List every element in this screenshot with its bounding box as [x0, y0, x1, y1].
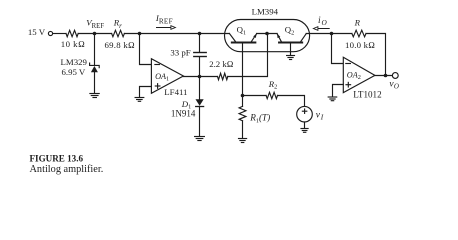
svg-text:IREF: IREF: [155, 13, 173, 26]
svg-text:Q1: Q1: [237, 25, 247, 37]
current arrow IREF: [157, 26, 176, 30]
op-amp OA2: [343, 57, 375, 92]
wire to emitters: [228, 34, 268, 77]
plus sign OA1: [155, 84, 160, 89]
current arrow iO: [313, 27, 329, 31]
svg-text:10 kΩ: 10 kΩ: [61, 39, 86, 49]
wire: [53, 33, 66, 35]
wire Q2 collector out: [306, 33, 331, 35]
wire: [124, 33, 229, 35]
wire feedback: [366, 34, 386, 76]
ground (R1T): [239, 139, 247, 143]
svg-text:R: R: [354, 17, 361, 27]
svg-text:vO: vO: [389, 80, 398, 91]
ground (OA1 +): [135, 98, 144, 102]
terminal vO: [392, 73, 398, 79]
svg-text:6.95 V: 6.95 V: [62, 67, 86, 77]
ground (vI): [301, 129, 308, 133]
diode D1 1N914: [196, 99, 204, 136]
wire: [243, 95, 267, 97]
transistor Q2: [277, 34, 306, 56]
svg-text:LF411: LF411: [164, 87, 187, 97]
node VREF: [93, 32, 97, 36]
svg-text:FIGURE 13.6: FIGURE 13.6: [30, 154, 84, 164]
node output feedback: [384, 74, 388, 78]
svg-text:iO: iO: [318, 16, 327, 27]
resistor R1(T): [239, 96, 246, 139]
svg-text:R2: R2: [268, 79, 278, 91]
node junction to OA1 input: [138, 32, 142, 36]
capacitor 33 pF: [194, 34, 206, 77]
node R2 junction: [241, 94, 245, 98]
wire OA1 output: [183, 76, 217, 78]
node cap junction: [198, 32, 202, 36]
minus sign OA1: [155, 64, 160, 66]
svg-text:Antilog amplifier.: Antilog amplifier.: [30, 164, 104, 175]
wire OA2 output: [375, 75, 393, 77]
wire emitters: [257, 33, 278, 35]
svg-text:15 V: 15 V: [28, 27, 46, 37]
svg-text:2.2 kΩ: 2.2 kΩ: [209, 59, 234, 69]
zener diode LM329: [90, 63, 100, 93]
resistor 2.2 kOhm: [218, 73, 228, 79]
wire: [78, 33, 94, 35]
wire OA2 inverting input: [332, 34, 344, 64]
ground (LM329): [90, 94, 99, 98]
wire: [94, 34, 96, 66]
ground (Q2 base): [287, 56, 295, 60]
wire: [95, 33, 112, 35]
svg-text:LM394: LM394: [252, 6, 279, 16]
svg-text:69.8 kΩ: 69.8 kΩ: [105, 40, 136, 50]
svg-text:10.0 kΩ: 10.0 kΩ: [345, 40, 375, 50]
resistor Rr 69.8 kOhm: [112, 30, 125, 36]
wire OA2 noninverting input: [333, 85, 344, 97]
terminal 15 V input: [48, 31, 52, 35]
ground (OA2 +): [328, 97, 337, 101]
svg-text:LM329: LM329: [61, 57, 88, 67]
svg-text:33 pF: 33 pF: [170, 48, 190, 58]
transistor pair package LM394: [225, 20, 310, 52]
node emitters: [265, 32, 269, 36]
op-amp OA1: [151, 59, 183, 94]
node OA2 input: [330, 32, 334, 36]
node OA1 output: [198, 75, 202, 79]
svg-text:Q2: Q2: [285, 25, 295, 37]
svg-text:vI: vI: [316, 111, 324, 122]
minus sign OA2: [346, 63, 351, 65]
svg-text:Rr: Rr: [113, 17, 122, 29]
ground (D1): [195, 137, 205, 141]
svg-text:VREF: VREF: [86, 17, 104, 30]
resistor R2: [266, 92, 277, 98]
wire OA1 noninverting input: [140, 87, 152, 98]
wire down to D1: [199, 77, 201, 100]
wire OA1 inverting input: [140, 34, 152, 65]
resistor R 10.0 kOhm: [352, 30, 366, 37]
svg-text:1N914: 1N914: [171, 109, 196, 119]
transistor Q1: [229, 34, 256, 96]
resistor 10 kOhm: [66, 30, 78, 36]
wire: [278, 96, 305, 107]
svg-text:LT1012: LT1012: [353, 90, 382, 100]
plus sign OA2: [346, 82, 351, 87]
svg-text:R1(T): R1(T): [249, 113, 270, 125]
wire to feedback resistor R: [332, 33, 352, 35]
source vI: [297, 106, 313, 128]
